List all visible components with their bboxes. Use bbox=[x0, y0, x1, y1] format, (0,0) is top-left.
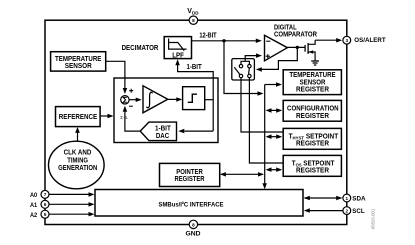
decimator label bbox=[122, 43, 159, 52]
wire integrator to modulator comparator bbox=[168, 97, 183, 102]
feedback wire comparator output to switch box bbox=[256, 47, 297, 71]
a0 wire bbox=[49, 192, 95, 197]
register bus vertical wire bbox=[262, 85, 267, 190]
bus to thyst register double arrow bbox=[266, 134, 283, 139]
svg-text:8: 8 bbox=[192, 18, 195, 23]
digital comparator label bbox=[274, 22, 318, 38]
svg-text:12-BIT: 12-BIT bbox=[199, 30, 217, 39]
svg-text:REGISTER: REGISTER bbox=[174, 174, 205, 183]
wire to 1-bit dac bbox=[178, 129, 213, 134]
wire clock to reference bbox=[75, 127, 80, 141]
bus to configuration register double arrow bbox=[266, 108, 283, 113]
wire bus to temperature sensor register bbox=[265, 82, 282, 87]
configuration register bbox=[283, 100, 341, 121]
svg-text:8: 8 bbox=[192, 222, 195, 227]
wire summer to integrator bbox=[129, 98, 142, 103]
12-bit label bbox=[199, 30, 217, 39]
a2 pin bbox=[30, 210, 49, 219]
svg-text:GENERATION: GENERATION bbox=[58, 163, 97, 172]
svg-text:6: 6 bbox=[44, 202, 47, 207]
wire switch to tos setpoint register bbox=[249, 78, 283, 163]
gnd pin bbox=[186, 220, 201, 237]
wire comparator output to mosfet gate bbox=[287, 46, 304, 48]
wire junction down to register bus bbox=[224, 41, 264, 96]
digital comparator triangle bbox=[265, 35, 288, 61]
1-bit label bbox=[187, 62, 203, 71]
svg-text:3: 3 bbox=[345, 38, 348, 43]
svg-text:7: 7 bbox=[44, 192, 47, 197]
wire quantizer output to feedback node bbox=[205, 99, 214, 101]
feedback vertical wire to lpf bbox=[175, 59, 213, 131]
clock and timing generation ellipse bbox=[49, 141, 105, 189]
setpoint switch box bbox=[232, 59, 255, 80]
svg-text:SENSOR: SENSOR bbox=[65, 61, 93, 70]
os/alert pin bbox=[343, 36, 387, 44]
svg-text:REGISTER: REGISTER bbox=[296, 85, 330, 94]
ground symbol bbox=[311, 61, 319, 65]
mosfet Q1 bbox=[305, 40, 315, 61]
sda pin bbox=[343, 194, 366, 202]
wire temperature sensor to sigma-delta summer bbox=[106, 61, 128, 94]
temperature sensor register bbox=[283, 70, 341, 95]
a2 wire bbox=[49, 212, 95, 217]
svg-text:COMPARATOR: COMPARATOR bbox=[274, 30, 318, 39]
wire dac to summer minus input bbox=[123, 106, 141, 131]
svg-text:A0: A0 bbox=[30, 192, 37, 199]
scl pin bbox=[343, 207, 365, 215]
svg-text:GND: GND bbox=[186, 230, 201, 237]
bus to tos register double arrow bbox=[266, 167, 283, 172]
lpf block bbox=[164, 37, 191, 60]
scl wire bbox=[304, 208, 343, 213]
output node bbox=[296, 46, 299, 49]
integrator bbox=[143, 86, 168, 113]
svg-text:SCL: SCL bbox=[352, 208, 364, 215]
svg-text:REFERENCE: REFERENCE bbox=[59, 112, 98, 121]
svg-text:OS/ALERT: OS/ALERT bbox=[354, 37, 386, 44]
summing junction bbox=[121, 89, 133, 107]
thyst setpoint register bbox=[283, 128, 341, 149]
temperature sensor block bbox=[51, 52, 106, 71]
svg-text:REGISTER: REGISTER bbox=[296, 166, 330, 175]
a1 pin bbox=[30, 200, 49, 209]
svg-text:DAC: DAC bbox=[156, 131, 169, 140]
svg-text:SMBus/I²C INTERFACE: SMBus/I²C INTERFACE bbox=[159, 201, 224, 208]
svg-text:5: 5 bbox=[44, 212, 47, 217]
pointer register to bus double arrow bbox=[220, 172, 264, 177]
switch output wire to comparator plus input bbox=[241, 53, 262, 64]
svg-text:1-BIT: 1-BIT bbox=[187, 62, 203, 71]
svg-text:REGISTER: REGISTER bbox=[296, 139, 330, 148]
smbus i2c interface bbox=[95, 190, 303, 217]
a1 wire bbox=[49, 202, 95, 207]
figure id bbox=[371, 208, 376, 229]
12-bit wire lpf to digital comparator minus input bbox=[192, 39, 262, 44]
pointer register bbox=[160, 163, 220, 186]
svg-text:LPF: LPF bbox=[172, 51, 184, 60]
svg-text:A2: A2 bbox=[30, 212, 37, 219]
wire reference to sigma-delta enclosure bbox=[100, 114, 113, 118]
svg-text:REGISTER: REGISTER bbox=[296, 111, 330, 120]
wire mosfet drain to os/alert pin bbox=[315, 38, 342, 43]
junction node on 12-bit wire bbox=[222, 39, 225, 42]
svg-text:Σ-Δ: Σ-Δ bbox=[120, 115, 127, 120]
wire switch to thyst setpoint register bbox=[241, 78, 283, 132]
tos setpoint register bbox=[283, 155, 341, 176]
sigma-delta label bbox=[120, 115, 127, 120]
svg-text:A1: A1 bbox=[30, 202, 37, 209]
svg-text:DECIMATOR: DECIMATOR bbox=[122, 43, 159, 52]
a0 pin bbox=[30, 190, 49, 199]
vdd pin bbox=[187, 8, 199, 25]
sigma-delta modulator enclosure bbox=[114, 78, 218, 143]
svg-text:05826-001: 05826-001 bbox=[371, 208, 376, 229]
svg-text:1: 1 bbox=[345, 196, 348, 201]
outer chip boundary box bbox=[45, 20, 347, 224]
svg-text:2: 2 bbox=[345, 208, 348, 213]
svg-text:SDA: SDA bbox=[352, 196, 365, 203]
1-bit dac bbox=[140, 122, 176, 141]
sda wire double arrow bbox=[304, 196, 342, 200]
modulator comparator (1-bit quantizer) bbox=[183, 87, 205, 110]
reference block bbox=[56, 107, 101, 127]
